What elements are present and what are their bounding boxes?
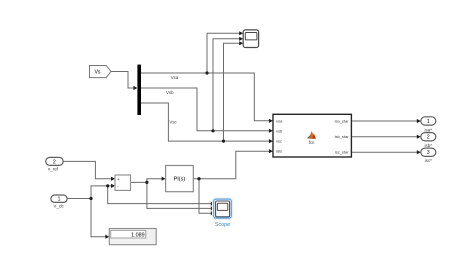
svg-text:v_ref: v_ref: [48, 167, 59, 172]
svg-text:1: 1: [427, 119, 430, 125]
svg-text:3: 3: [427, 150, 430, 156]
svg-text:idis: idis: [276, 149, 282, 154]
svg-text:isa_star: isa_star: [335, 119, 350, 124]
svg-text:Vsa: Vsa: [171, 75, 179, 80]
svg-text:V_dc: V_dc: [53, 204, 64, 209]
svg-text:isc*: isc*: [425, 158, 432, 163]
svg-text:vsc: vsc: [276, 139, 282, 144]
svg-text:1.089: 1.089: [131, 233, 145, 239]
svg-text:2: 2: [427, 135, 430, 141]
svg-text:isb*: isb*: [425, 143, 433, 148]
svg-text:vsa: vsa: [276, 118, 283, 123]
svg-text:isa*: isa*: [425, 127, 433, 132]
svg-text:Vs: Vs: [94, 69, 100, 75]
svg-text:PI(s): PI(s): [173, 177, 185, 183]
svg-text:Vsc: Vsc: [169, 120, 177, 125]
svg-text:+: +: [117, 177, 120, 182]
svg-text:Scope: Scope: [215, 222, 230, 228]
svg-text:fcn: fcn: [309, 140, 315, 145]
svg-text:isb_star: isb_star: [335, 134, 350, 139]
svg-text:Vsb: Vsb: [166, 90, 174, 95]
svg-text:2: 2: [53, 159, 56, 165]
svg-text:1: 1: [58, 197, 61, 203]
svg-text:vsb: vsb: [276, 128, 283, 133]
svg-text:isc_star: isc_star: [335, 150, 349, 155]
